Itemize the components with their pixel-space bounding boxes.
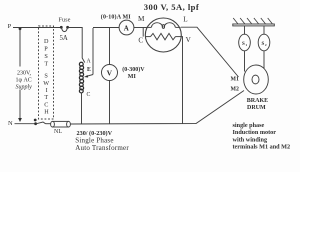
svg-text:M1: M1 — [231, 76, 239, 82]
svg-text:2: 2 — [265, 43, 267, 47]
svg-text:with winding: with winding — [233, 136, 268, 143]
svg-text:D: D — [44, 38, 49, 45]
svg-text:5A: 5A — [60, 35, 68, 42]
terminal E wiper with arrow — [84, 28, 93, 78]
svg-text:M2: M2 — [231, 86, 239, 92]
wire ammeter to wattmeter M — [134, 27, 146, 29]
ceiling support with hatching — [233, 18, 274, 26]
wattmeter pressure coil C-V resistor — [146, 33, 181, 39]
svg-text:W: W — [43, 80, 49, 87]
wire wiper output to ammeter — [93, 27, 119, 29]
svg-text:L: L — [183, 16, 187, 24]
svg-text:Fuse: Fuse — [59, 18, 71, 24]
svg-text:Auto Transformer: Auto Transformer — [75, 144, 129, 152]
drum shaft — [252, 75, 259, 84]
brake drum label — [247, 98, 268, 111]
svg-text:DRUM: DRUM — [247, 105, 266, 111]
svg-text:M: M — [138, 15, 145, 23]
wire neutral from N to switch — [15, 123, 35, 125]
string from ceiling to spring balance S2 — [263, 26, 265, 35]
svg-text:BRAKE: BRAKE — [247, 98, 268, 104]
svg-text:Induction motor: Induction motor — [233, 129, 277, 136]
motor description note — [233, 122, 291, 151]
svg-text:V: V — [186, 36, 192, 44]
svg-text:N: N — [8, 120, 13, 127]
wire switch to neutral link — [46, 123, 51, 125]
svg-text:Supply: Supply — [16, 85, 33, 91]
svg-text:A: A — [124, 24, 129, 32]
wire voltmeter tap — [109, 28, 111, 124]
terminal A label — [87, 59, 92, 65]
string from ceiling to spring balance S1 — [244, 26, 246, 35]
svg-text:P: P — [8, 23, 12, 30]
spring balance S1 — [239, 34, 251, 51]
node P supply phase terminal — [8, 23, 12, 30]
svg-text:1: 1 — [245, 43, 247, 47]
svg-text:P: P — [44, 46, 48, 53]
svg-text:terminals M1 and M2: terminals M1 and M2 — [233, 144, 291, 151]
svg-text:A: A — [87, 59, 92, 65]
svg-text:S: S — [44, 53, 48, 60]
svg-text:NL: NL — [54, 129, 62, 135]
wattmeter rating label 300V 5A lpf — [144, 2, 199, 12]
svg-text:230V,: 230V, — [17, 71, 32, 77]
DPST switch dashed enclosure — [39, 26, 54, 119]
svg-text:E: E — [87, 67, 91, 73]
wire C to neutral rail — [81, 93, 83, 124]
svg-text:C: C — [44, 101, 48, 108]
wire wattmeter common stub M to C — [142, 27, 144, 36]
fuse 5A kit-kat symbol — [59, 18, 71, 42]
supply label 230V 1-phase AC with tap line — [16, 27, 33, 122]
svg-text:V: V — [107, 69, 113, 78]
belt string S2 to drum — [263, 51, 265, 69]
neutral link NL — [51, 121, 71, 135]
wire fuse to autotransformer input A — [69, 28, 85, 63]
voltmeter V1 (0-300)V MI — [102, 65, 146, 81]
wire phase from P to switch — [13, 27, 60, 29]
wire wattmeter V to neutral rail — [181, 37, 183, 124]
wattmeter terminal labels M L C V — [138, 15, 192, 45]
svg-text:C: C — [138, 37, 143, 45]
svg-text:C: C — [87, 92, 91, 98]
svg-text:(0-10)A MI: (0-10)A MI — [101, 13, 132, 20]
spring balance S2 — [258, 34, 270, 51]
motor terminal label M1 — [231, 76, 239, 82]
node N supply neutral terminal — [8, 120, 13, 127]
svg-text:T: T — [44, 94, 48, 101]
motor terminal label M2 — [231, 86, 239, 92]
svg-text:(0-300)V: (0-300)V — [122, 66, 145, 73]
wire wattmeter L to motor terminal M1 — [181, 27, 239, 77]
neutral rail wire to motor terminal M2 — [71, 91, 245, 125]
autotransformer T1 winding — [79, 62, 83, 93]
svg-text:300 V, 5A, lpf: 300 V, 5A, lpf — [144, 2, 199, 12]
svg-text:I: I — [46, 87, 48, 94]
svg-text:H: H — [44, 108, 49, 115]
switch contact dots on neutral pole — [34, 119, 46, 126]
svg-text:S: S — [44, 73, 48, 80]
svg-text:T: T — [44, 61, 48, 68]
belt string S1 to drum — [244, 51, 246, 72]
ammeter A1 (0-10)A MI — [101, 13, 134, 35]
brake drum — [244, 65, 269, 94]
svg-text:MI: MI — [128, 74, 137, 80]
wattmeter W1 body — [145, 18, 181, 52]
terminal C label — [87, 92, 91, 98]
wattmeter current coil M-L — [146, 23, 181, 29]
svg-text:1φ AC: 1φ AC — [16, 78, 32, 84]
autotransformer name label — [75, 130, 129, 152]
svg-text:single phase: single phase — [233, 122, 265, 129]
